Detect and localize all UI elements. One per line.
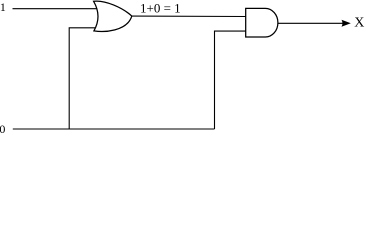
wire riser from bottom rail to AND gate lower input	[215, 31, 246, 129]
wire AND output	[278, 22, 348, 24]
arrowhead	[342, 20, 351, 27]
wire input-0 bottom rail	[13, 128, 215, 130]
wire input-1 top rail to OR gate	[13, 8, 99, 10]
svg-text:0: 0	[0, 122, 5, 136]
svg-text:1: 1	[0, 0, 6, 14]
wire riser from bottom rail to OR gate second input	[69, 28, 97, 129]
or-gate G1	[94, 1, 132, 31]
svg-text:X: X	[354, 16, 364, 31]
and-gate G2	[246, 8, 278, 37]
svg-text:1+0 = 1: 1+0 = 1	[140, 1, 181, 16]
wire OR output to AND gate upper input	[132, 15, 246, 17]
